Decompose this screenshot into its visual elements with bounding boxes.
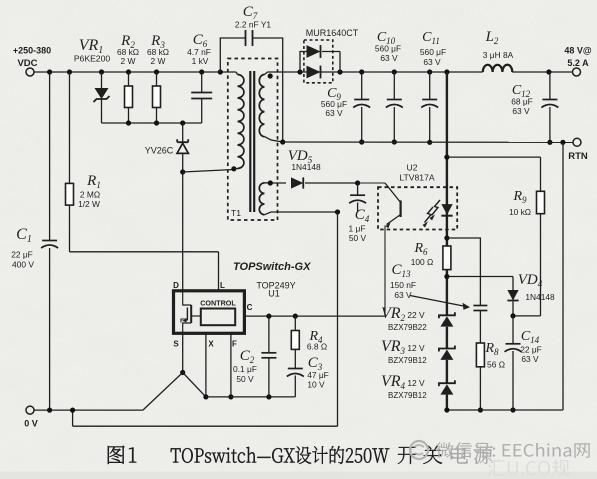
svg-text:P6KE200: P6KE200	[74, 54, 111, 64]
node drain junction	[180, 166, 236, 174]
input terminal +250-380 VDC	[13, 46, 51, 77]
svg-text:400 V: 400 V	[12, 260, 34, 270]
watermark icon	[410, 441, 428, 459]
svg-text:BZX79B12: BZX79B12	[388, 356, 427, 365]
svg-text:2.2 nF Y1: 2.2 nF Y1	[235, 20, 272, 30]
wire drain to D pin	[182, 172, 184, 291]
svg-text:63 V: 63 V	[380, 53, 398, 63]
svg-text:F: F	[232, 340, 237, 349]
0V terminal	[24, 406, 38, 428]
svg-text:VDC: VDC	[17, 58, 37, 69]
svg-text:63 V: 63 V	[521, 354, 539, 364]
svg-text:TOPSwitch-GX: TOPSwitch-GX	[233, 261, 311, 273]
svg-text:100 Ω: 100 Ω	[411, 257, 434, 267]
svg-text:1N4148: 1N4148	[291, 162, 321, 172]
svg-text:U2: U2	[407, 163, 418, 173]
svg-text:50 V: 50 V	[236, 374, 254, 384]
capacitor C10 560uF 63V	[375, 30, 403, 145]
svg-text:560 μF: 560 μF	[375, 44, 401, 54]
optocoupler U2 LTV817A box	[378, 163, 457, 230]
svg-text:U1: U1	[268, 289, 280, 299]
transformer bias winding	[259, 180, 337, 214]
capacitor C1 22uF 400V	[11, 72, 58, 410]
watermark ghost line	[488, 459, 570, 476]
wire LED feedback line	[444, 72, 449, 315]
wire X pin	[203, 333, 208, 399]
svg-text:MUR1640CT: MUR1640CT	[306, 28, 359, 38]
transformer secondary winding	[259, 72, 282, 142]
transformer T1 dashed box	[228, 59, 278, 221]
wire F pin	[228, 333, 233, 399]
wire bias return	[73, 209, 341, 426]
svg-text:0.1 μF: 0.1 μF	[233, 364, 257, 374]
resistor R6 100	[411, 241, 451, 279]
diode VD4 1N4148	[507, 272, 555, 319]
opto light arrows	[423, 200, 441, 228]
svg-text:1 kV: 1 kV	[192, 56, 209, 66]
svg-text:63 V: 63 V	[325, 108, 343, 118]
svg-text:+250-380: +250-380	[13, 46, 51, 56]
opto phototransistor	[358, 183, 401, 316]
zener VR4 BZX79B12	[381, 373, 455, 410]
capacitor C3 47uF 10V	[287, 349, 329, 397]
svg-text:LTV817A: LTV817A	[399, 173, 434, 183]
wire 0V rail	[34, 408, 143, 413]
svg-text:150 nF: 150 nF	[390, 280, 416, 290]
svg-text:C: C	[247, 303, 253, 312]
RTN terminal	[568, 138, 588, 162]
svg-text:2 W: 2 W	[121, 56, 136, 66]
svg-text:63 V: 63 V	[394, 290, 412, 300]
svg-text:2 MΩ: 2 MΩ	[80, 190, 100, 200]
diode YV26C	[145, 123, 189, 172]
rectifier MUR1640CT	[300, 28, 359, 83]
svg-text:22 μF: 22 μF	[520, 345, 542, 355]
svg-text:1N4148: 1N4148	[525, 292, 555, 302]
resistor R1 2M 1/2W	[66, 72, 101, 252]
capacitor C2 0.1uF 50V	[233, 316, 276, 397]
resistor R2 68k 2W	[117, 33, 139, 123]
svg-text:10 V: 10 V	[307, 380, 325, 390]
wire secondary bottom rail	[444, 142, 563, 412]
opto LED	[441, 204, 452, 216]
svg-text:47 μF: 47 μF	[307, 370, 329, 380]
svg-text:68 μF: 68 μF	[511, 97, 533, 107]
TVS diode VR1 P6KE200	[74, 37, 111, 123]
svg-text:3 μH 8A: 3 μH 8A	[483, 50, 514, 60]
capacitor C6 4.7nF 1kV	[187, 32, 212, 123]
svg-text:X: X	[208, 340, 214, 349]
capacitor C14 22uF 63V	[505, 316, 542, 413]
pin labels D L C S X F	[173, 281, 253, 349]
svg-text:L: L	[220, 281, 225, 290]
resistor R3 68k 2W	[147, 33, 169, 123]
transformer core	[250, 71, 254, 212]
output terminal 48V 5.2A	[564, 46, 592, 77]
wire X rail	[206, 394, 295, 399]
capacitor C12 68uF 63V	[511, 72, 558, 145]
wire R9 branch	[444, 155, 540, 192]
capacitor C7 2.2nF Y1	[220, 4, 282, 142]
watermark 微信号 EEChina网	[436, 442, 590, 458]
caption title TOPswitch-GX设计的250W	[171, 446, 390, 464]
wire S pin and diagonals	[143, 333, 206, 410]
wire clamp bus	[102, 120, 202, 125]
svg-text:BZX79B22: BZX79B22	[388, 323, 427, 332]
svg-text:BZX79B12: BZX79B12	[388, 391, 427, 400]
svg-text:560 μF: 560 μF	[420, 47, 446, 57]
svg-text:S: S	[173, 340, 179, 349]
wire C pin rail	[244, 314, 385, 319]
resistor R8 56	[476, 341, 505, 413]
wire C13 branch	[447, 238, 481, 306]
svg-text:22 μF: 22 μF	[11, 250, 33, 260]
wire output return rail	[280, 139, 573, 145]
caption trailing 开关电源	[398, 445, 493, 464]
inductor L2 3uH 8A	[483, 29, 514, 72]
wire VD4 branch	[447, 277, 513, 291]
capacitor C13 150nF 63V	[390, 262, 487, 343]
svg-text:0 V: 0 V	[24, 419, 38, 429]
svg-text:10 kΩ: 10 kΩ	[509, 207, 531, 217]
zener VR3 BZX79B12	[381, 338, 455, 383]
resistor R9 10k	[509, 189, 545, 316]
capacitor C9 560uF 63V	[321, 72, 370, 145]
svg-text:48 V@: 48 V@	[564, 46, 592, 56]
TOPswitch internal MOSFET	[181, 291, 201, 334]
arrow C13 pointer	[410, 296, 470, 310]
svg-text:63 V: 63 V	[423, 57, 441, 67]
svg-text:YV26C: YV26C	[145, 146, 174, 156]
svg-text:RTN: RTN	[568, 151, 588, 162]
capacitor C11 560uF 63V	[420, 30, 446, 145]
TOPswitch U1 box	[174, 261, 312, 333]
capacitor C4 1uF 50V	[349, 180, 370, 243]
transformer primary winding	[234, 72, 244, 169]
svg-text:63 V: 63 V	[512, 106, 530, 116]
caption label 图1	[108, 446, 136, 464]
svg-text:1/2 W: 1/2 W	[78, 199, 100, 209]
diode VD5 1N4148	[288, 148, 358, 189]
svg-text:T1: T1	[231, 208, 241, 218]
wire top HV rail	[34, 69, 236, 74]
svg-text:1 μF: 1 μF	[349, 224, 366, 234]
wire R1 to L pin	[70, 252, 219, 291]
wire secondary output rail	[276, 69, 573, 74]
svg-text:6.8 Ω: 6.8 Ω	[307, 342, 327, 352]
svg-text:2 W: 2 W	[151, 56, 166, 66]
svg-text:50 V: 50 V	[349, 233, 367, 243]
svg-text:D: D	[173, 281, 179, 290]
resistor R4 6.8	[291, 316, 327, 351]
svg-text:5.2 A: 5.2 A	[567, 58, 589, 68]
svg-text:CONTROL: CONTROL	[200, 298, 236, 307]
svg-text:56 Ω: 56 Ω	[487, 360, 505, 370]
zener VR2 BZX79B22	[381, 305, 455, 349]
